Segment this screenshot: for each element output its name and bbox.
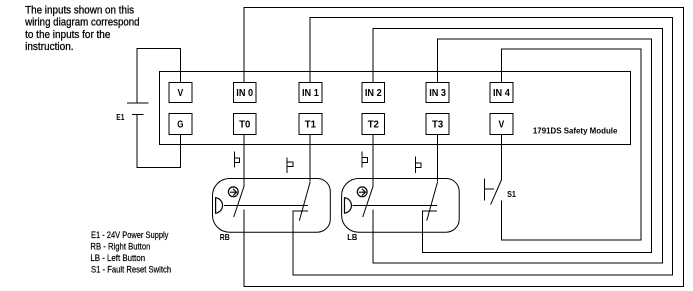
wire IN0 loop to RB contact 1: [244, 8, 683, 287]
terminal G (bottom row): [169, 113, 192, 134]
svg-text:instruction.: instruction.: [25, 41, 74, 53]
svg-text:to the inputs for the: to the inputs for the: [25, 29, 110, 41]
wire E1 positive to terminal V top: [137, 49, 181, 103]
wire IN4 loop to switch S1: [501, 49, 641, 240]
terminal IN3: [426, 83, 449, 103]
LB indicator circle with arrow: [357, 187, 367, 197]
svg-text:E1: E1: [116, 112, 124, 122]
LB plunger half-disc: [345, 198, 352, 214]
wire IN1 loop to RB contact 2: [293, 17, 672, 275]
wire IN3 loop to LB contact 2: [422, 39, 651, 252]
wire T1 to RB contact 2: [309, 134, 311, 181]
LB contact 2 blade: [427, 182, 438, 221]
wire T2 to LB contact 1: [372, 134, 374, 186]
RB plunger half-disc: [216, 198, 223, 214]
contact mark near T0: [234, 151, 239, 167]
terminal T0: [233, 113, 256, 134]
svg-text:LB: LB: [347, 232, 357, 242]
svg-text:IN 1: IN 1: [302, 88, 319, 99]
svg-text:IN 2: IN 2: [365, 88, 382, 99]
terminal IN2: [362, 83, 385, 103]
svg-text:RB - Right Button: RB - Right Button: [90, 242, 150, 253]
LB actuator bar: [353, 205, 437, 207]
wire E1 negative to terminal G: [137, 115, 180, 168]
legend: [90, 230, 171, 275]
svg-text:T2: T2: [368, 119, 379, 130]
RB actuator bar: [224, 205, 308, 207]
pushbutton LB: [342, 179, 460, 233]
svg-text:T0: T0: [239, 119, 250, 130]
wire T0 to RB contact 1: [243, 134, 245, 186]
LB contact 1 blade: [363, 186, 374, 217]
svg-text:RB: RB: [220, 232, 230, 242]
svg-text:IN 3: IN 3: [429, 88, 446, 99]
svg-text:T1: T1: [305, 119, 317, 130]
LB outline: [342, 179, 460, 233]
terminal T3: [426, 113, 449, 134]
terminal IN4: [490, 83, 513, 103]
svg-text:1791DS Safety Module: 1791DS Safety Module: [533, 126, 618, 135]
terminal T2: [362, 113, 385, 134]
battery E1: [127, 103, 149, 115]
wire T3 to LB contact 2: [437, 134, 439, 181]
svg-text:V: V: [499, 119, 505, 130]
contact mark near T2: [362, 151, 367, 167]
terminal V (top row): [169, 83, 192, 103]
wire terminal V bottom to switch S1: [500, 134, 502, 180]
svg-text:S1 - Fault Reset Switch: S1 - Fault Reset Switch: [91, 264, 171, 275]
RB contact 1 blade: [234, 186, 245, 217]
note text: [24, 4, 139, 53]
S1 blade: [491, 180, 502, 205]
1791DS safety module box: [160, 72, 631, 145]
pushbutton RB: [213, 179, 331, 233]
svg-text:V: V: [178, 88, 184, 99]
terminal IN1: [299, 83, 322, 103]
contact mark near RB contact 2: [287, 157, 293, 173]
svg-text:LB - Left Button: LB - Left Button: [90, 253, 145, 264]
svg-text:The inputs shown on this: The inputs shown on this: [25, 4, 134, 16]
svg-text:E1 - 24V Power Supply: E1 - 24V Power Supply: [91, 230, 169, 241]
terminal T1: [299, 113, 322, 134]
svg-text:IN 0: IN 0: [236, 88, 253, 99]
svg-text:S1: S1: [507, 189, 516, 199]
wire IN2 loop to LB contact 1: [373, 28, 662, 263]
terminal V (bottom row): [490, 113, 513, 134]
svg-text:wiring diagram correspond: wiring diagram correspond: [24, 17, 139, 29]
svg-text:T3: T3: [432, 119, 444, 130]
RB outline: [213, 179, 331, 233]
terminal IN0: [233, 83, 256, 103]
svg-text:IN 4: IN 4: [493, 88, 510, 99]
svg-text:G: G: [177, 119, 183, 130]
switch S1: [484, 178, 501, 204]
RB indicator circle with arrow: [228, 187, 238, 197]
S1 actuator: [484, 178, 494, 200]
RB contact 2 blade: [299, 182, 310, 221]
contact mark near LB contact 2: [416, 156, 422, 173]
